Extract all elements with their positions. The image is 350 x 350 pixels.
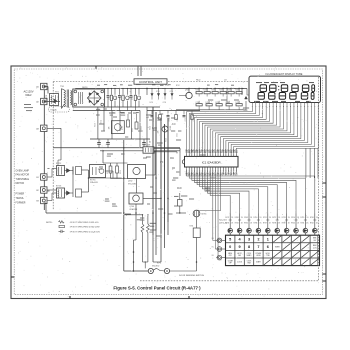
svg-text:FORMER: FORMER [16, 203, 26, 205]
svg-text:CONTROL UNIT: CONTROL UNIT [139, 80, 162, 84]
svg-text:0: 0 [229, 245, 231, 249]
svg-text:1S: 1S [241, 217, 243, 219]
svg-text:R721: R721 [132, 128, 134, 132]
svg-text:1S: 1S [278, 217, 280, 219]
svg-text:POWER: POWER [16, 194, 25, 196]
svg-text:C706: C706 [226, 102, 230, 104]
svg-text:D714: D714 [291, 217, 295, 219]
svg-text:R740: R740 [291, 223, 295, 225]
svg-text:D707: D707 [225, 217, 229, 219]
svg-text:D710: D710 [253, 217, 257, 219]
svg-text:R724: R724 [150, 126, 152, 130]
svg-text:ZD71: ZD71 [116, 96, 118, 100]
svg-text:TIME: TIME [247, 263, 251, 265]
svg-text:TIMER: TIMER [275, 246, 281, 248]
svg-text:C708: C708 [163, 102, 167, 104]
svg-text:MOTOR: MOTOR [16, 183, 25, 185]
svg-text:Key Unit: Key Unit [219, 219, 227, 222]
svg-text:C715: C715 [101, 120, 103, 124]
svg-text:R726: R726 [166, 138, 168, 142]
svg-text:PB-62: PB-62 [196, 80, 201, 82]
svg-text:D712: D712 [272, 217, 276, 219]
svg-text:D702: D702 [236, 102, 240, 104]
svg-text:LEVEL: LEVEL [256, 255, 261, 257]
svg-text:RY701: RY701 [90, 179, 95, 181]
svg-text:C708: C708 [170, 91, 174, 93]
svg-text:D713: D713 [282, 217, 286, 219]
svg-text:D708: D708 [235, 217, 239, 219]
svg-text:COOK: COOK [247, 260, 251, 262]
svg-text:R741: R741 [300, 223, 304, 225]
svg-text:2: 2 [257, 237, 259, 241]
svg-text:LVT-102: LVT-102 [58, 95, 60, 101]
svg-text:MEM.: MEM. [313, 245, 317, 247]
svg-text:R703: R703 [196, 90, 200, 92]
svg-text:R741: R741 [190, 225, 194, 227]
svg-text:R703: R703 [228, 90, 232, 92]
svg-text:5: 5 [229, 237, 231, 241]
svg-text:RY-2(A): RY-2(A) [51, 108, 57, 111]
svg-text:R738: R738 [272, 223, 276, 225]
svg-text:D711: D711 [263, 217, 267, 219]
svg-text:R731: R731 [169, 118, 171, 122]
svg-text:R707: R707 [220, 90, 224, 92]
svg-text:Q704: Q704 [130, 206, 134, 208]
svg-text:1S: 1S [307, 217, 309, 219]
svg-text:7: 7 [257, 245, 259, 249]
svg-text:1S: 1S [288, 217, 290, 219]
svg-text:OVEN LAMP: OVEN LAMP [16, 170, 30, 173]
svg-text:R742: R742 [310, 223, 314, 225]
svg-text:C716: C716 [129, 96, 131, 100]
svg-text:: IF NOT SPECIFIED 0.01μF 50V: : IF NOT SPECIFIED 0.01μF 50V [69, 231, 100, 233]
svg-text:OFF: OFF [229, 263, 232, 265]
svg-text:ORY: ORY [313, 240, 316, 242]
svg-text:Q702: Q702 [128, 181, 132, 183]
svg-text:9: 9 [239, 245, 241, 249]
svg-text:8: 8 [248, 245, 250, 249]
svg-text:AC120V: AC120V [23, 89, 33, 93]
svg-text:D703: D703 [150, 102, 154, 104]
svg-text:R736: R736 [253, 223, 257, 225]
svg-text:R734: R734 [235, 223, 239, 225]
svg-text:R707: R707 [212, 90, 216, 92]
svg-text:Q703: Q703 [121, 126, 123, 130]
svg-text:R715: R715 [140, 96, 142, 100]
svg-text:R716: R716 [95, 123, 97, 127]
svg-text:FLUORESCENT DISPLAY TUBE: FLUORESCENT DISPLAY TUBE [266, 73, 303, 76]
svg-text:R-P52: R-P52 [157, 263, 161, 265]
svg-text:D709: D709 [244, 217, 248, 219]
svg-text:TRANS-: TRANS- [16, 197, 25, 200]
svg-text:CX1 455E: CX1 455E [143, 145, 152, 147]
svg-text:1S: 1S [260, 217, 262, 219]
svg-text:Figure S-5. Control Panel Circ: Figure S-5. Control Panel Circuit (R-4A7… [113, 286, 201, 291]
svg-text:DEF: DEF [238, 255, 241, 257]
svg-text:R703: R703 [204, 90, 208, 92]
svg-text:BZ701: BZ701 [202, 213, 207, 215]
svg-text:2-LVL: 2-LVL [313, 248, 317, 250]
svg-text:POWER: POWER [256, 253, 263, 255]
svg-text:CLOCK: CLOCK [237, 262, 242, 264]
svg-text:RY702: RY702 [56, 163, 61, 165]
svg-text:R735: R735 [244, 223, 248, 225]
svg-text:KRC243M: KRC243M [128, 184, 136, 186]
svg-text:T701: T701 [60, 86, 64, 88]
svg-text:C720: C720 [161, 118, 163, 122]
svg-text:6: 6 [267, 245, 269, 249]
svg-text:C720: C720 [193, 118, 195, 122]
svg-text:D715: D715 [300, 217, 304, 219]
svg-text:60Hz: 60Hz [25, 93, 32, 97]
svg-text:R739: R739 [282, 223, 286, 225]
svg-text:1S: 1S [231, 217, 233, 219]
svg-text:R708: R708 [216, 102, 220, 104]
svg-text:DOOR SENSING SWITCH: DOOR SENSING SWITCH [179, 275, 204, 277]
svg-text:C706: C706 [196, 102, 200, 104]
svg-text:3: 3 [248, 237, 250, 241]
svg-text:R737: R737 [263, 223, 267, 225]
svg-text:C717: C717 [141, 126, 143, 130]
svg-text:C702: C702 [165, 85, 169, 87]
svg-text:SW2-RG2: SW2-RG2 [152, 266, 159, 268]
svg-text:DPA-001D: DPA-001D [90, 181, 99, 184]
svg-text:R711: R711 [107, 170, 109, 174]
svg-text:MEM-: MEM- [228, 253, 232, 255]
svg-text:1S: 1S [269, 217, 271, 219]
svg-text:C721: C721 [177, 133, 179, 137]
svg-text:MEMO: MEMO [247, 255, 252, 257]
svg-text:: IF NOT SPECIFIED 470Ω 1/2W: : IF NOT SPECIFIED 470Ω 1/2W [69, 227, 100, 229]
svg-text:R733: R733 [225, 223, 229, 225]
svg-text:R731: R731 [177, 118, 179, 122]
svg-text:Q701: Q701 [185, 90, 189, 92]
svg-text:RY703: RY703 [56, 186, 61, 188]
svg-text:R705: R705 [236, 90, 240, 92]
svg-text:1: 1 [267, 237, 269, 241]
svg-text:KB: KB [212, 238, 214, 240]
svg-text:1S: 1S [250, 217, 252, 219]
svg-text:TURNTABLE: TURNTABLE [16, 178, 30, 181]
svg-text:IC1 IZA428DR: IC1 IZA428DR [202, 160, 221, 164]
svg-text:247: 247 [224, 80, 227, 82]
svg-text:D702: D702 [206, 102, 210, 104]
svg-text:FAN MOTOR: FAN MOTOR [16, 174, 30, 177]
svg-text:KRA553M: KRA553M [130, 208, 138, 211]
svg-text:R712: R712 [120, 170, 122, 174]
svg-text:RY1: RY1 [55, 91, 59, 93]
svg-text:: IF NOT SPECIFIED 1/4W ±5%: : IF NOT SPECIFIED 1/4W ±5% [69, 222, 99, 224]
svg-text:R702: R702 [176, 85, 180, 87]
svg-text:D703: D703 [156, 91, 160, 93]
svg-text:COOK: COOK [247, 253, 251, 255]
svg-text:MEM.: MEM. [313, 238, 317, 240]
svg-text:D716: D716 [310, 217, 314, 219]
svg-text:R731: R731 [153, 118, 155, 122]
svg-text:NOTE :: NOTE : [46, 222, 53, 224]
